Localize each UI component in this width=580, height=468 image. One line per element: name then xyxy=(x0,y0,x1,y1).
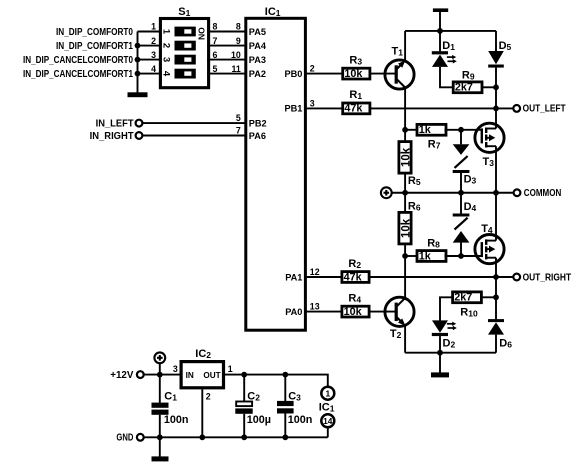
svg-text:14: 14 xyxy=(323,416,333,426)
svg-text:OUT: OUT xyxy=(203,371,220,380)
svg-text:10k: 10k xyxy=(344,68,363,80)
svg-text:IC1: IC1 xyxy=(319,401,335,413)
S1 reference label xyxy=(178,6,190,18)
wire bus left of S1 xyxy=(138,32,163,93)
pin number 7 xyxy=(236,126,241,136)
wire D1 to R9 xyxy=(440,67,453,87)
capacitor C2 electrolytic xyxy=(235,375,252,438)
resistor R3 xyxy=(343,68,370,79)
node IN_DIP_COMFORT1 xyxy=(56,41,133,52)
label D1 xyxy=(442,40,455,52)
resistor R7 xyxy=(417,124,446,135)
label D3 xyxy=(464,173,477,185)
wire R5 bottom xyxy=(404,173,406,193)
label T1 xyxy=(392,46,404,58)
pin number 12 xyxy=(310,267,320,277)
svg-text:IN_DIP_CANCELCOMFORT0: IN_DIP_CANCELCOMFORT0 xyxy=(23,55,133,66)
diode D6 xyxy=(488,277,504,353)
wire IN_LEFT to PB2 xyxy=(142,122,245,124)
supply symbol plus 12V xyxy=(154,352,165,374)
pin number 1 xyxy=(228,364,233,374)
svg-text:2: 2 xyxy=(151,36,156,46)
svg-text:7: 7 xyxy=(213,36,218,46)
node IN_DIP_CANCELCOMFORT1 xyxy=(23,69,133,80)
resistor R10 xyxy=(453,292,482,303)
label T3 xyxy=(483,156,495,168)
svg-text:12: 12 xyxy=(310,267,320,277)
svg-text:100n: 100n xyxy=(164,414,189,426)
resistor R2 xyxy=(342,272,369,283)
svg-text:5: 5 xyxy=(213,64,218,74)
svg-text:1k: 1k xyxy=(419,124,432,136)
wire R9 to D5 column xyxy=(482,84,499,90)
label R8 xyxy=(427,238,440,250)
svg-text:1: 1 xyxy=(228,364,233,374)
wire OUT_LEFT row xyxy=(370,106,513,112)
svg-text:4: 4 xyxy=(151,64,156,74)
node IN_DIP_CANCELCOMFORT0 xyxy=(23,55,133,66)
wire pin14 to GND rail xyxy=(327,427,329,438)
diode D1 (LED) xyxy=(432,31,457,67)
svg-text:C1: C1 xyxy=(164,390,177,402)
resistor R5 xyxy=(399,142,412,174)
wire GND rail xyxy=(144,434,328,440)
label R5 xyxy=(408,175,421,187)
node +12V xyxy=(110,370,143,381)
transistor T2 xyxy=(385,297,414,326)
IC1 reference label xyxy=(265,6,281,18)
IC1 box xyxy=(246,18,306,330)
svg-text:1: 1 xyxy=(151,22,156,32)
wire R3 to T1 base xyxy=(370,73,396,75)
wire T1 emitter riser xyxy=(404,31,406,61)
diode D4 (zener) xyxy=(453,193,470,256)
svg-text:R4: R4 xyxy=(348,292,361,304)
diode D5 xyxy=(488,31,504,109)
label R4 xyxy=(348,292,361,304)
resistor R9 xyxy=(453,82,482,93)
svg-text:2k7: 2k7 xyxy=(454,292,472,304)
svg-text:6: 6 xyxy=(213,50,218,60)
svg-text:PB2: PB2 xyxy=(249,118,267,128)
S1 left pin numbers 1-4 xyxy=(151,22,156,74)
label D2 xyxy=(443,338,456,350)
dip switch S1 xyxy=(160,19,208,88)
wire to R7 xyxy=(405,129,418,131)
svg-text:8: 8 xyxy=(213,22,218,32)
node GND xyxy=(116,433,143,444)
wire T3 drain up xyxy=(495,108,497,128)
label R1 xyxy=(349,89,362,101)
wire +12V to IC2 xyxy=(144,372,181,378)
svg-text:T1: T1 xyxy=(392,46,404,58)
svg-text:1: 1 xyxy=(161,29,172,35)
diode D3 (zener) xyxy=(453,130,470,193)
svg-text:T3: T3 xyxy=(483,156,495,168)
value 2k7 xyxy=(455,82,473,94)
wire R6 junction to R8 xyxy=(405,255,418,257)
wire IC2 out rail xyxy=(225,372,328,388)
node IN_LEFT xyxy=(96,118,143,129)
pin number 2 xyxy=(310,64,315,74)
svg-text:1: 1 xyxy=(325,388,330,398)
svg-text:IC1: IC1 xyxy=(265,6,281,18)
pin number 3 xyxy=(310,99,315,109)
IC1 pin names left xyxy=(249,27,267,141)
value 100n xyxy=(288,414,313,426)
svg-text:IC2: IC2 xyxy=(195,348,211,360)
IC1 power pin 14 xyxy=(321,414,334,427)
label IC1 power xyxy=(319,401,335,413)
wire R8 to T4 gate xyxy=(445,253,482,259)
label D4 xyxy=(464,201,477,213)
wire R4 to T2 base xyxy=(369,311,396,313)
svg-text:IN_LEFT: IN_LEFT xyxy=(96,118,134,129)
IC1 left pin numbers 8,9,10,11 xyxy=(231,22,241,74)
svg-text:7: 7 xyxy=(236,126,241,136)
value 100n xyxy=(164,414,189,426)
svg-text:R5: R5 xyxy=(408,175,421,187)
svg-text:10k: 10k xyxy=(344,306,363,318)
node OUT_LEFT xyxy=(513,104,565,115)
svg-text:D4: D4 xyxy=(464,201,477,213)
svg-text:PA6: PA6 xyxy=(249,131,266,141)
pin number 3 xyxy=(173,364,178,374)
svg-text:T2: T2 xyxy=(390,328,402,340)
svg-text:PA4: PA4 xyxy=(249,41,267,51)
wire PA1 to R2 xyxy=(305,276,342,278)
svg-text:10k: 10k xyxy=(400,218,412,238)
resistor R1 xyxy=(343,103,370,114)
label D5 xyxy=(499,40,512,52)
capacitor C3 xyxy=(277,375,294,438)
svg-text:ON: ON xyxy=(197,27,207,40)
svg-text:R2: R2 xyxy=(348,258,361,270)
svg-text:9: 9 xyxy=(236,36,241,46)
wire R10 to column xyxy=(481,294,499,300)
wire T1 collector column xyxy=(402,88,408,133)
value 1k xyxy=(419,250,432,262)
pin number 5 xyxy=(236,113,241,123)
svg-text:D6: D6 xyxy=(499,337,512,349)
wire IC2 pin2 down xyxy=(201,389,203,437)
value 47k xyxy=(344,103,363,115)
label R10 xyxy=(460,306,478,318)
value 10k xyxy=(344,68,363,80)
svg-text:13: 13 xyxy=(310,302,320,312)
wire PB1 to R1 xyxy=(305,107,342,109)
svg-text:PB0: PB0 xyxy=(285,69,303,79)
node OUT_RIGHT xyxy=(513,272,571,283)
wire R5 top xyxy=(404,130,406,142)
label C2 xyxy=(247,390,260,402)
wire T2 collector riser xyxy=(404,256,406,298)
svg-text:R10: R10 xyxy=(460,306,478,318)
wire T3 source down xyxy=(495,146,497,193)
svg-text:C3: C3 xyxy=(288,390,301,402)
value 47k xyxy=(344,271,363,283)
svg-text:1k: 1k xyxy=(419,250,432,262)
svg-text:PA3: PA3 xyxy=(249,55,266,65)
wire PA0 to R4 xyxy=(305,311,342,313)
svg-text:5: 5 xyxy=(236,113,241,123)
svg-text:IN_DIP_COMFORT0: IN_DIP_COMFORT0 xyxy=(56,27,133,38)
junction dots on bus xyxy=(135,43,141,77)
diode D2 (LED) xyxy=(432,320,457,352)
wire T4 source down xyxy=(495,258,497,277)
svg-text:2: 2 xyxy=(206,391,211,401)
svg-text:PA2: PA2 xyxy=(249,69,266,79)
svg-text:47k: 47k xyxy=(344,271,363,283)
label R7 xyxy=(428,138,441,150)
svg-text:3: 3 xyxy=(151,50,156,60)
svg-text:10k: 10k xyxy=(400,147,412,167)
svg-text:IN_DIP_COMFORT1: IN_DIP_COMFORT1 xyxy=(56,41,133,52)
svg-text:R8: R8 xyxy=(427,238,440,250)
node IN_RIGHT xyxy=(90,131,143,142)
label C1 xyxy=(164,390,177,402)
wire T4 drain up xyxy=(495,193,497,241)
svg-text:D5: D5 xyxy=(499,40,512,52)
label IC2 xyxy=(195,348,211,360)
svg-text:D3: D3 xyxy=(464,173,477,185)
svg-text:2k7: 2k7 xyxy=(455,82,473,94)
node COMMON xyxy=(514,188,562,199)
svg-text:+12V: +12V xyxy=(110,370,134,381)
svg-text:11: 11 xyxy=(231,64,240,74)
ground bottom right xyxy=(431,353,449,378)
ground bottom left xyxy=(152,437,169,461)
resistor R4 xyxy=(342,306,369,317)
svg-text:2: 2 xyxy=(161,43,172,48)
svg-text:3: 3 xyxy=(173,364,178,374)
svg-text:COMMON: COMMON xyxy=(524,188,562,199)
power rail symbol top xyxy=(433,8,448,31)
svg-text:3: 3 xyxy=(310,99,315,109)
supply symbol plus COMMON row xyxy=(381,187,392,198)
svg-text:R7: R7 xyxy=(428,138,441,150)
capacitor C1 xyxy=(152,375,169,438)
svg-text:D1: D1 xyxy=(442,40,455,52)
svg-text:IN_RIGHT: IN_RIGHT xyxy=(90,131,134,142)
svg-text:PA0: PA0 xyxy=(285,307,302,317)
wire bottom row xyxy=(405,350,496,356)
svg-text:R1: R1 xyxy=(349,89,362,101)
resistor R8 xyxy=(417,251,446,262)
svg-text:R3: R3 xyxy=(349,54,362,66)
IC1 pin names right xyxy=(285,69,303,317)
svg-text:PA1: PA1 xyxy=(285,272,302,282)
pin number 13 xyxy=(310,302,320,312)
S1 right pin numbers 8,7,6,5 xyxy=(213,22,218,74)
svg-text:R6: R6 xyxy=(408,200,421,212)
value 1k xyxy=(419,124,432,136)
transistor T1 xyxy=(385,60,414,89)
svg-text:4: 4 xyxy=(161,71,172,77)
svg-text:IN: IN xyxy=(186,371,194,380)
svg-text:10: 10 xyxy=(231,50,241,60)
mosfet T4 xyxy=(475,235,504,264)
wire OUT_RIGHT row xyxy=(369,274,513,280)
svg-text:D2: D2 xyxy=(443,338,456,350)
svg-text:PB1: PB1 xyxy=(285,104,303,114)
label R6 xyxy=(408,200,421,212)
wire R10 branch xyxy=(440,297,453,320)
svg-text:100n: 100n xyxy=(288,414,313,426)
resistor R6 xyxy=(399,212,412,244)
svg-text:47k: 47k xyxy=(344,103,363,115)
label R3 xyxy=(349,54,362,66)
wire R6 bottom xyxy=(402,244,408,259)
value 10k xyxy=(344,306,363,318)
wire R7 to T3 gate xyxy=(445,127,482,133)
label D6 xyxy=(499,337,512,349)
wire R6 top xyxy=(404,193,406,213)
svg-text:T4: T4 xyxy=(481,223,493,235)
regulator IC2 xyxy=(181,362,223,388)
svg-text:OUT_RIGHT: OUT_RIGHT xyxy=(523,272,572,283)
label R9 xyxy=(462,69,475,81)
node IN_DIP_COMFORT0 xyxy=(56,27,133,38)
IC1 power pin 1 xyxy=(321,387,334,400)
label C3 xyxy=(288,390,301,402)
label T2 xyxy=(390,328,402,340)
svg-text:C2: C2 xyxy=(247,390,260,402)
svg-text:S1: S1 xyxy=(178,6,190,18)
svg-text:PA5: PA5 xyxy=(249,27,266,37)
svg-text:2: 2 xyxy=(310,64,315,74)
wire T2 emitter down xyxy=(404,325,406,352)
wire PB0 to R3 xyxy=(305,73,342,75)
value 100u xyxy=(247,414,271,426)
svg-text:IN_DIP_CANCELCOMFORT1: IN_DIP_CANCELCOMFORT1 xyxy=(23,69,133,80)
label R2 xyxy=(348,258,361,270)
wire COMMON row xyxy=(392,190,514,196)
svg-text:100µ: 100µ xyxy=(247,414,271,426)
label T4 xyxy=(481,223,493,235)
wires S1 to IC1 xyxy=(207,32,247,74)
svg-text:3: 3 xyxy=(161,57,172,62)
svg-text:8: 8 xyxy=(236,22,241,32)
ground below S1 bus xyxy=(128,92,148,97)
svg-text:R9: R9 xyxy=(462,69,475,81)
value 2k7 xyxy=(454,292,472,304)
svg-text:GND: GND xyxy=(116,433,133,444)
pin number 2 xyxy=(206,391,211,401)
wire IN_RIGHT to PA6 xyxy=(142,135,245,137)
svg-text:OUT_LEFT: OUT_LEFT xyxy=(523,104,566,115)
mosfet T3 xyxy=(475,123,504,152)
wire top rail xyxy=(405,28,496,34)
